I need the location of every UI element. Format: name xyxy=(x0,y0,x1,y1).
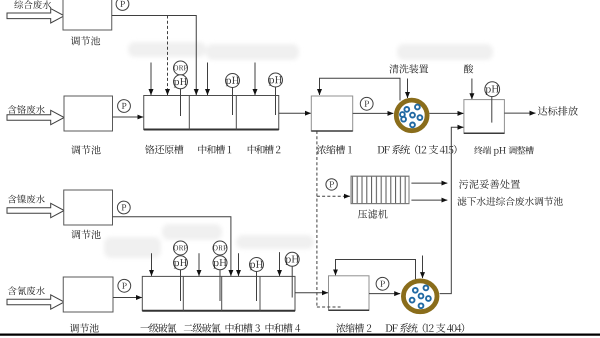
pump P (含镍) xyxy=(117,201,130,214)
DF membrane system 1 xyxy=(396,100,427,131)
pipe 中和槽4 to 浓缩槽2 xyxy=(295,292,328,294)
label DF 系统（12 支 404） xyxy=(386,323,465,333)
probe line pH 中和槽1 xyxy=(232,88,234,116)
dashed dosing line into 铬还原槽 xyxy=(167,16,169,96)
instrument pH (中和槽1) xyxy=(226,74,240,88)
tank 浓缩槽1 xyxy=(311,96,352,131)
chemical feed arrow into 中和槽2 xyxy=(254,63,256,96)
instrument pH (中和槽2) xyxy=(269,73,283,87)
label 中和槽 4 xyxy=(266,323,301,332)
instrument pH (铬还原槽) xyxy=(174,75,188,89)
tank 调节池 (综合废水调节池) xyxy=(63,0,112,30)
block arrow inlet 综合废水 xyxy=(7,9,64,23)
pipe 含氰调节池 to 一级破氰 xyxy=(113,297,142,299)
pump P (含氰) xyxy=(118,279,131,292)
pump P (含铬) xyxy=(118,100,131,113)
label 终端 pH 调整槽 xyxy=(474,146,533,156)
label 一级破氰 xyxy=(140,323,176,332)
arrow 清洗装置 into DF1 xyxy=(407,79,409,99)
pipe 中和槽2 to 浓缩槽1 xyxy=(279,112,311,114)
chemical feed arrow into 二级破氰 xyxy=(198,253,200,276)
instrument ORP (一级破氰) xyxy=(174,241,188,255)
tank row3 一级破氰/二级破氰/中和槽3/中和槽4 xyxy=(142,276,295,310)
block arrow inlet 含氰废水 xyxy=(7,295,64,309)
text input 综合废水 xyxy=(14,0,51,9)
text input 含镍废水 xyxy=(8,195,45,204)
text input 含氰废水 xyxy=(8,286,45,295)
chemical feed arrow into 中和槽1 xyxy=(207,63,209,96)
tank 浓缩槽2 xyxy=(329,276,370,311)
return pipe DF2 to 浓缩槽2 xyxy=(336,260,416,280)
divider 铬还原槽|中和槽1 xyxy=(188,96,190,130)
pump P (浓缩槽2) xyxy=(376,277,389,290)
return pipe DF1 to 浓缩槽1 xyxy=(320,78,401,100)
label 中和槽 2 xyxy=(248,145,281,154)
DF membrane system 2 xyxy=(403,281,437,312)
chemical feed arrow into 中和槽3 xyxy=(238,253,240,276)
label DF 系统（12 支 415） xyxy=(378,145,457,155)
instrument pH (二级破氰) xyxy=(213,256,227,270)
instrument pH (中和槽4) xyxy=(285,252,299,266)
probe line pH 中和槽3 xyxy=(256,272,258,302)
probe line pH 中和槽4 xyxy=(291,267,293,298)
pump P (浓缩槽1) xyxy=(360,97,373,110)
label 浓缩槽 1 xyxy=(317,145,352,154)
faded watermark blobs xyxy=(104,42,493,258)
label 浓缩槽 2 xyxy=(336,323,371,332)
label 压滤机 xyxy=(358,209,388,218)
riser pipe DF2 to 终端槽 xyxy=(440,127,464,293)
tank 调节池 (含铬) xyxy=(64,96,113,131)
label 二级破氰 xyxy=(184,323,221,332)
probe line pH 终端槽 xyxy=(491,97,493,123)
dashed sludge link to 浓缩槽2 xyxy=(317,306,341,308)
text 污泥妥善处置 xyxy=(459,179,520,188)
tank 终端pH调整槽 xyxy=(464,100,505,134)
probe line ORP/pH 二级破氰 xyxy=(219,270,221,301)
tank 调节池 (含镍) xyxy=(64,190,113,225)
block arrow inlet 含镍废水 xyxy=(7,203,64,217)
dashed sludge line to 压滤机 xyxy=(317,195,350,197)
arrow 酸 into 终端槽 xyxy=(471,79,473,100)
pipe 含铬调节池 to 铬还原槽 xyxy=(113,116,144,118)
label 中和槽 3 xyxy=(226,323,260,332)
chemical feed arrow into 铬还原槽 xyxy=(150,63,152,96)
text 滤下水进综合废水调节池 xyxy=(457,197,563,206)
text input 含铬废水 xyxy=(8,105,45,114)
label 调节池 (含镍) xyxy=(71,230,100,239)
tank row1 铬还原槽/中和槽1/中和槽2 xyxy=(144,96,279,130)
label 铬还原槽 xyxy=(145,145,183,154)
instrument pH (中和槽3) xyxy=(250,258,264,272)
probe line pH 中和槽2 xyxy=(275,87,277,115)
pump P (压滤机) xyxy=(326,179,337,190)
feed arrow into DF2 xyxy=(422,256,424,279)
divider 一级破氰|二级破氰 xyxy=(182,276,184,310)
pipe outfall 达标排放 xyxy=(504,112,535,114)
instrument ORP (二级破氰) xyxy=(213,241,227,255)
filter press 压滤机 xyxy=(351,176,409,203)
block arrow inlet 含铬废水 xyxy=(7,110,64,124)
divider 中和槽3|中和槽4 xyxy=(259,276,261,310)
pipe 综合调节池 to 中和槽1 xyxy=(112,16,197,96)
text 达标排放 xyxy=(538,106,578,115)
arrow 压滤机 sludge out xyxy=(411,182,447,184)
label 调节池 (含氰) xyxy=(70,323,99,332)
pump P (综合) xyxy=(116,0,129,10)
instrument ORP (铬还原槽) xyxy=(174,61,188,75)
label 中和槽 1 xyxy=(198,145,231,154)
chemical feed arrow into 一级破氰 xyxy=(151,253,153,276)
pipe 含镍调节池 to 中和槽3 xyxy=(113,217,231,276)
chemical feed arrow into 中和槽4 xyxy=(279,252,281,276)
dashed sludge line from 浓缩槽1 xyxy=(316,131,318,307)
instrument pH (终端槽) xyxy=(485,82,500,97)
probe line ORP/pH 一级破氰 xyxy=(180,270,182,301)
pipe DF1 to 终端pH调整槽 xyxy=(429,112,463,114)
divider 中和槽1|中和槽2 xyxy=(235,96,237,130)
label 清洗装置 xyxy=(389,64,428,73)
arrow 压滤机 filtrate out xyxy=(411,199,447,201)
instrument pH (一级破氰) xyxy=(174,256,188,270)
pipe 浓缩槽2 to DF2 xyxy=(369,293,400,295)
pipe 浓缩槽1 to DF1 xyxy=(353,112,394,114)
divider 二级破氰|中和槽3 xyxy=(221,276,223,310)
tank 调节池 (含氰) xyxy=(63,277,113,312)
label 酸 xyxy=(464,64,473,73)
label 调节池 (含铬) xyxy=(71,145,100,154)
bottom border line xyxy=(0,334,600,336)
probe line ORP/pH 铬还原槽 xyxy=(180,89,182,116)
label 调节池 (综合) xyxy=(71,36,100,45)
